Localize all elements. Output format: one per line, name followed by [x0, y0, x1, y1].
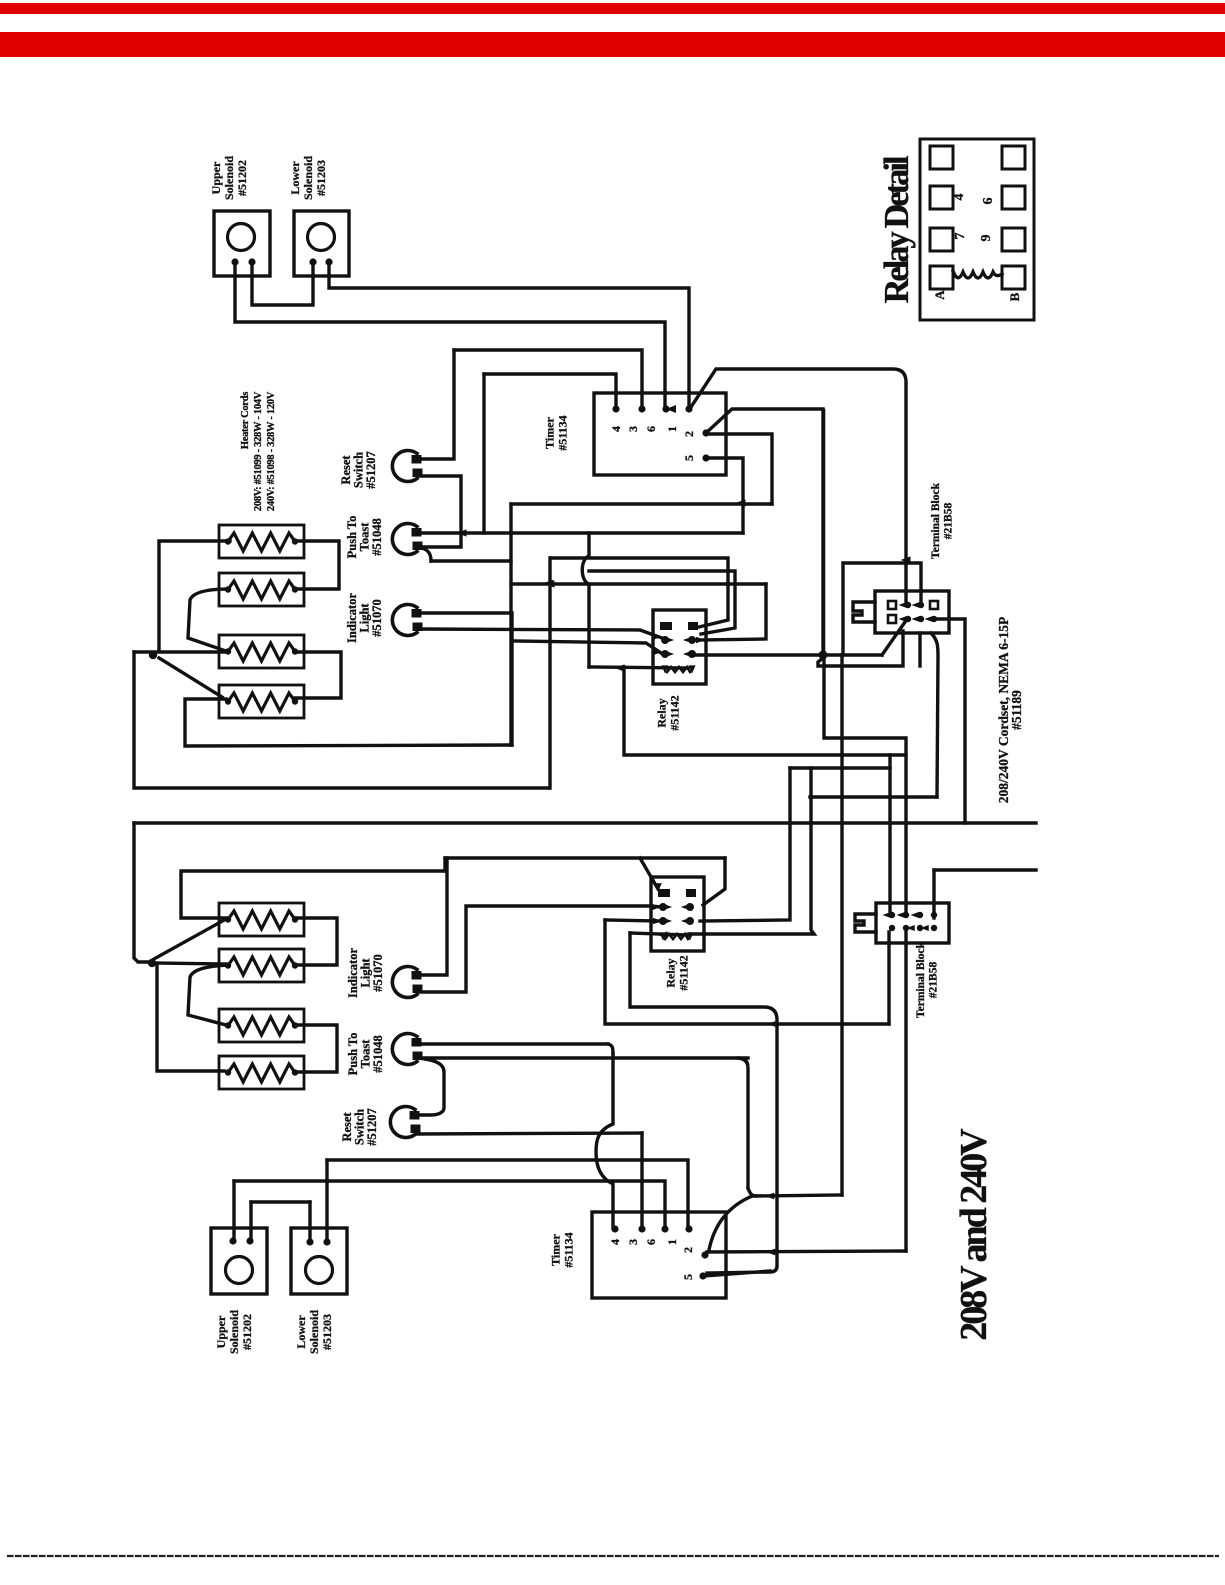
- svg-text:Solenoid: Solenoid: [227, 1310, 241, 1354]
- svg-text:6: 6: [644, 426, 658, 432]
- svg-text:Upper: Upper: [209, 161, 223, 194]
- svg-text:#51207: #51207: [365, 1108, 379, 1146]
- svg-text:6: 6: [981, 198, 996, 205]
- svg-text:#51134: #51134: [562, 1232, 576, 1267]
- svg-text:3: 3: [626, 1239, 640, 1245]
- svg-text:#51048: #51048: [370, 518, 384, 556]
- svg-text:#51202: #51202: [240, 1314, 254, 1350]
- svg-text:4: 4: [608, 1239, 622, 1245]
- svg-text:5: 5: [681, 1274, 695, 1280]
- svg-text:Relay: Relay: [664, 958, 678, 987]
- svg-text:240V: #51098 - 328W - 120V: 240V: #51098 - 328W - 120V: [266, 391, 277, 511]
- svg-text:B: B: [1007, 292, 1022, 301]
- svg-text:Heater Cords: Heater Cords: [240, 392, 251, 449]
- svg-text:Relay Detail: Relay Detail: [878, 156, 916, 303]
- svg-text:Lower: Lower: [288, 161, 302, 195]
- svg-text:5: 5: [682, 455, 696, 461]
- svg-text:#51142: #51142: [668, 695, 682, 730]
- svg-text:A: A: [932, 290, 947, 300]
- svg-text:#21B58: #21B58: [927, 962, 939, 999]
- svg-text:#51048: #51048: [371, 1035, 385, 1073]
- svg-text:Terminal Block: Terminal Block: [915, 941, 927, 1018]
- svg-text:2: 2: [682, 431, 696, 437]
- svg-text:#51203: #51203: [314, 160, 328, 196]
- svg-text:#51070: #51070: [370, 599, 384, 637]
- svg-text:Terminal Block: Terminal Block: [930, 482, 942, 559]
- svg-text:1: 1: [665, 426, 679, 432]
- svg-text:Upper: Upper: [214, 1315, 228, 1348]
- svg-text:#51202: #51202: [235, 160, 249, 196]
- svg-text:#51207: #51207: [364, 451, 378, 489]
- svg-text:Lower: Lower: [294, 1315, 308, 1349]
- svg-text:#21B58: #21B58: [942, 503, 954, 540]
- svg-text:#51142: #51142: [677, 955, 691, 990]
- svg-text:2: 2: [681, 1247, 695, 1253]
- svg-text:#51070: #51070: [371, 954, 385, 992]
- svg-text:Solenoid: Solenoid: [222, 156, 236, 200]
- svg-text:7: 7: [953, 233, 968, 240]
- svg-text:#51203: #51203: [320, 1314, 334, 1350]
- svg-text:1: 1: [665, 1239, 679, 1245]
- svg-text:208V and 240V: 208V and 240V: [953, 1128, 995, 1341]
- svg-text:Solenoid: Solenoid: [307, 1310, 321, 1354]
- svg-text:#51134: #51134: [556, 415, 570, 450]
- svg-text:Relay: Relay: [655, 698, 669, 727]
- svg-text:Solenoid: Solenoid: [301, 156, 315, 200]
- svg-text:6: 6: [644, 1239, 658, 1245]
- svg-text:3: 3: [626, 426, 640, 432]
- svg-text:4: 4: [609, 426, 623, 432]
- svg-text:Timer: Timer: [549, 1233, 563, 1265]
- svg-text:#51189: #51189: [1009, 690, 1024, 730]
- svg-text:4: 4: [952, 194, 967, 201]
- svg-text:208V: #51099 - 328W - 104V: 208V: #51099 - 328W - 104V: [253, 391, 264, 511]
- svg-text:9: 9: [979, 235, 994, 242]
- svg-text:Timer: Timer: [543, 416, 557, 448]
